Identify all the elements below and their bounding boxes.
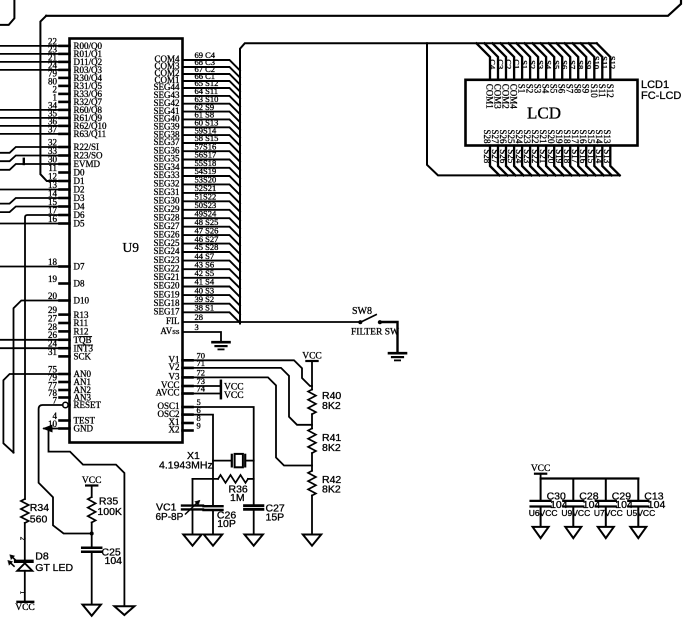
svg-text:VCC: VCC	[531, 464, 551, 474]
svg-text:U9: U9	[123, 240, 140, 255]
svg-text:VCC: VCC	[15, 603, 35, 613]
svg-text:8K2: 8K2	[322, 400, 341, 412]
svg-text:RESET: RESET	[74, 400, 102, 410]
svg-text:38 S1: 38 S1	[195, 303, 215, 313]
svg-text:18: 18	[48, 257, 58, 267]
svg-text:FILTER SW: FILTER SW	[351, 328, 399, 338]
svg-text:U6VCC: U6VCC	[529, 508, 558, 518]
svg-text:8K2: 8K2	[322, 484, 341, 496]
svg-text:GND: GND	[74, 424, 94, 434]
svg-text:R34: R34	[30, 502, 49, 514]
svg-text:FC-LCD: FC-LCD	[641, 90, 681, 102]
svg-text:X2: X2	[169, 425, 180, 435]
svg-text:VCC: VCC	[302, 352, 322, 362]
svg-text:28: 28	[195, 312, 204, 322]
svg-text:37: 37	[48, 124, 58, 134]
svg-text:S12: S12	[605, 84, 615, 98]
svg-text:S13: S13	[602, 129, 612, 144]
svg-text:D7: D7	[74, 262, 85, 272]
svg-text:S13: S13	[602, 149, 612, 164]
svg-text:FIL: FIL	[166, 316, 180, 326]
svg-text:AVCC: AVCC	[156, 388, 180, 398]
svg-text:100K: 100K	[97, 506, 122, 518]
svg-text:6P-8P: 6P-8P	[156, 512, 184, 523]
svg-text:VCC: VCC	[82, 476, 102, 486]
svg-text:R63/Q11: R63/Q11	[74, 129, 107, 139]
svg-text:15P: 15P	[266, 511, 285, 523]
svg-text:SCK: SCK	[74, 352, 92, 362]
svg-text:U5VCC: U5VCC	[626, 508, 655, 518]
svg-text:S12: S12	[608, 56, 618, 69]
svg-text:19: 19	[48, 274, 58, 284]
svg-text:1M: 1M	[230, 492, 245, 504]
svg-text:V2: V2	[169, 362, 180, 372]
svg-text:SW8: SW8	[352, 306, 372, 317]
svg-text:U9VCC: U9VCC	[561, 508, 590, 518]
svg-text:LCD: LCD	[527, 104, 561, 123]
svg-text:SEG17: SEG17	[153, 307, 180, 317]
svg-text:4.1943MHz: 4.1943MHz	[159, 460, 213, 472]
svg-text:D10: D10	[74, 296, 90, 306]
svg-text:3: 3	[195, 322, 199, 332]
svg-text:10P: 10P	[217, 518, 236, 530]
svg-text:9: 9	[197, 421, 201, 431]
svg-text:20: 20	[48, 291, 58, 301]
svg-text:D5: D5	[74, 219, 85, 229]
svg-text:31: 31	[48, 347, 57, 357]
svg-text:D8: D8	[74, 279, 85, 289]
svg-text:2: 2	[19, 537, 27, 541]
svg-text:U7VCC: U7VCC	[594, 508, 623, 518]
svg-text:GT LED: GT LED	[35, 562, 73, 574]
svg-text:VCC: VCC	[224, 391, 244, 401]
svg-text:7: 7	[53, 395, 58, 405]
svg-text:1: 1	[19, 591, 27, 595]
svg-text:8K2: 8K2	[322, 442, 341, 454]
svg-text:104: 104	[105, 555, 123, 567]
svg-text:560: 560	[30, 513, 48, 525]
